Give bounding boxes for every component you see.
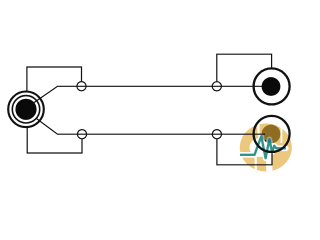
wire ring diagonal + bottom wire to RCA2 bbox=[36, 118, 265, 134]
jack J1 ring circle bbox=[12, 96, 39, 123]
wire sleeve top box bbox=[27, 67, 82, 92]
switch contact circle top-right bbox=[212, 82, 221, 91]
switch contact circle bottom-right bbox=[212, 130, 221, 139]
jack J1 sleeve outer circle bbox=[8, 92, 44, 128]
watermark logo group bbox=[240, 124, 292, 172]
wire top-right shield loop bbox=[217, 54, 272, 81]
wire bottom-right shield loop bbox=[217, 139, 272, 165]
RCA plug P2 center pin (filled, under watermark) bbox=[262, 125, 281, 144]
watermark pulse white casing bbox=[240, 136, 286, 158]
wire tip diagonal + top wire to RCA1 bbox=[32, 86, 265, 104]
jack J1 tip contact (filled) bbox=[15, 99, 36, 120]
switch contact circle top-left bbox=[77, 82, 86, 91]
RCA plug P1 center pin (filled) bbox=[262, 77, 281, 96]
switch contact circle bottom-left bbox=[77, 130, 86, 139]
wire sleeve bottom path bbox=[27, 128, 82, 153]
watermark pulse trace bbox=[240, 136, 286, 158]
RCA plug P2 outer circle bbox=[254, 116, 290, 152]
RCA plug P1 outer circle bbox=[254, 68, 290, 104]
watermark gold ring bbox=[240, 124, 292, 172]
